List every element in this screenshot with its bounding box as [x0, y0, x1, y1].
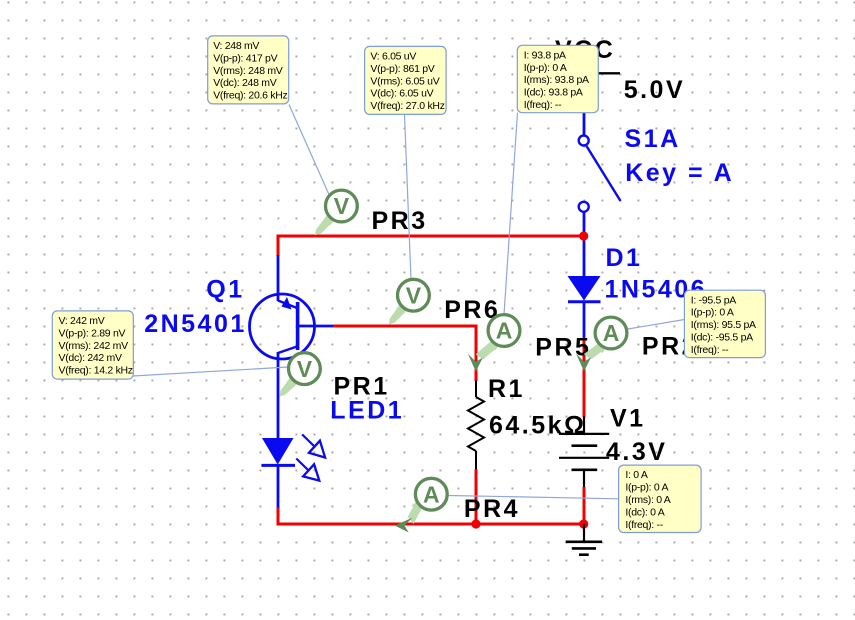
- svg-text:2N5401: 2N5401: [144, 310, 247, 338]
- label LED1: [330, 396, 404, 424]
- svg-text:Key = A: Key = A: [625, 159, 734, 187]
- svg-text:V(dc): 242 mV: V(dc): 242 mV: [59, 352, 123, 364]
- label PR3: [372, 207, 428, 235]
- svg-text:I(p-p): 0 A: I(p-p): 0 A: [625, 482, 668, 494]
- VCC power symbol bar: [548, 72, 620, 74]
- wire D1 to V1 (red): [583, 338, 586, 418]
- tooltip 3 (PR5 readings): [517, 45, 598, 112]
- svg-text:A: A: [423, 481, 440, 507]
- svg-text:A: A: [496, 318, 513, 344]
- label 2N5401: [144, 310, 247, 338]
- svg-text:I(p-p): 0 A: I(p-p): 0 A: [524, 62, 567, 74]
- connector line tooltip2 to PR6: [405, 115, 412, 280]
- svg-text:PR3: PR3: [372, 207, 428, 235]
- battery V1: [559, 417, 609, 489]
- svg-text:V(p-p): 861 pV: V(p-p): 861 pV: [370, 63, 434, 75]
- svg-text:I: 0 A: I: 0 A: [625, 469, 647, 481]
- svg-text:V: 242 mV: V: 242 mV: [59, 315, 105, 327]
- svg-text:I(dc): 93.8 pA: I(dc): 93.8 pA: [524, 87, 583, 99]
- svg-text:V(dc): 6.05 uV: V(dc): 6.05 uV: [370, 88, 433, 100]
- label V1: [610, 404, 646, 432]
- tooltip 6 (PR1 readings): [52, 311, 133, 379]
- probe PR2 (A): [576, 317, 627, 371]
- wire V1 to bottom net (red): [583, 487, 586, 524]
- connector line tooltip1 to PR3: [289, 105, 331, 199]
- svg-text:V(p-p): 2.89 nV: V(p-p): 2.89 nV: [59, 327, 126, 339]
- label PR2: [642, 333, 698, 361]
- label PR4: [464, 495, 520, 523]
- svg-text:I(freq): --: I(freq): --: [625, 519, 663, 531]
- diode D1: [568, 276, 601, 338]
- svg-text:R1: R1: [488, 375, 525, 403]
- svg-text:V(rms): 248 mV: V(rms): 248 mV: [213, 65, 283, 77]
- probe PR1 (V): [280, 353, 321, 397]
- wire R1 to bottom (red): [475, 469, 478, 524]
- svg-text:I(freq): --: I(freq): --: [691, 344, 729, 356]
- tooltip 4 (PR2 readings): [684, 290, 765, 357]
- probe PR3 (V): [315, 190, 357, 235]
- svg-text:D1: D1: [606, 244, 643, 272]
- svg-text:PR5: PR5: [535, 334, 591, 362]
- connector line tooltip4 to PR2: [628, 320, 684, 330]
- svg-text:V: V: [406, 282, 422, 308]
- ground: [566, 524, 602, 555]
- label R1: [488, 375, 525, 403]
- transistor Q1: [250, 255, 334, 438]
- tooltip 1 (PR3 readings): [208, 36, 289, 104]
- label 64.5kOhm: [489, 412, 587, 440]
- svg-text:A: A: [603, 320, 620, 346]
- connector line tooltip6 to PR1: [133, 367, 288, 376]
- label S1A: [625, 125, 681, 153]
- svg-text:V: 6.05 uV: V: 6.05 uV: [370, 51, 416, 63]
- svg-text:PR4: PR4: [464, 495, 520, 523]
- connector line tooltip5 to PR4: [449, 496, 619, 499]
- svg-text:V(rms): 6.05 uV: V(rms): 6.05 uV: [370, 75, 439, 87]
- label PR6: [444, 296, 500, 324]
- svg-text:I(rms): 93.8 pA: I(rms): 93.8 pA: [524, 74, 589, 86]
- svg-text:I: 93.8 pA: I: 93.8 pA: [524, 49, 566, 61]
- svg-text:V: V: [334, 193, 350, 219]
- svg-text:I(rms): 95.5 pA: I(rms): 95.5 pA: [691, 319, 756, 331]
- svg-text:V(dc): 248 mV: V(dc): 248 mV: [213, 77, 277, 89]
- switch S1: [579, 136, 621, 212]
- label D1: [606, 244, 643, 272]
- probe PR5 (A): [468, 315, 520, 372]
- junction dot PR4: [471, 519, 480, 528]
- svg-text:I(dc): -95.5 pA: I(dc): -95.5 pA: [691, 332, 753, 344]
- svg-text:I(rms): 0 A: I(rms): 0 A: [625, 494, 670, 506]
- svg-text:5.0V: 5.0V: [624, 76, 685, 104]
- junction dot bottom right: [579, 519, 588, 528]
- svg-text:V(freq): 27.0 kHz: V(freq): 27.0 kHz: [370, 100, 444, 112]
- resistor R1: [468, 381, 484, 470]
- label 5.0V: [624, 76, 685, 104]
- svg-text:Q1: Q1: [206, 276, 244, 304]
- wire VCC to switch: [583, 73, 586, 136]
- svg-text:I(p-p): 0 A: I(p-p): 0 A: [691, 307, 734, 319]
- svg-text:V(rms): 242 mV: V(rms): 242 mV: [59, 340, 129, 352]
- svg-text:LED1: LED1: [330, 396, 404, 424]
- label PR5: [535, 334, 591, 362]
- label PR1: [334, 373, 390, 401]
- tooltip 2 (PR6 readings): [365, 46, 447, 114]
- svg-text:64.5kΩ: 64.5kΩ: [489, 412, 587, 440]
- svg-text:V(freq): 14.2 kHz: V(freq): 14.2 kHz: [59, 365, 133, 377]
- svg-text:4.3V: 4.3V: [606, 438, 667, 466]
- wire bottom net (red): [278, 507, 584, 524]
- svg-text:I: -95.5 pA: I: -95.5 pA: [691, 294, 736, 306]
- tooltip 5 (PR4 readings): [619, 465, 702, 532]
- node VCC label: [555, 36, 615, 64]
- junction dot top: [579, 231, 588, 240]
- connector line tooltip3 to PR5: [504, 113, 518, 315]
- svg-text:V: 248 mV: V: 248 mV: [213, 40, 259, 52]
- wire top-left vertical (red): [277, 235, 280, 257]
- label 1N5406: [605, 276, 708, 304]
- svg-text:V(freq): 20.6 kHz: V(freq): 20.6 kHz: [213, 90, 287, 102]
- LED LED1: [261, 434, 325, 507]
- svg-text:V: V: [297, 356, 313, 382]
- wire switch to D1 (blue lead): [583, 212, 586, 278]
- label Q1: [206, 276, 244, 304]
- svg-text:S1A: S1A: [625, 125, 681, 153]
- svg-text:V(p-p): 417 pV: V(p-p): 417 pV: [213, 52, 277, 64]
- svg-text:I(freq): --: I(freq): --: [524, 99, 562, 111]
- svg-text:I(dc): 0 A: I(dc): 0 A: [625, 506, 664, 518]
- label Key = A: [625, 159, 734, 187]
- probe PR4 (A): [395, 478, 447, 532]
- probe PR6 (V): [389, 279, 429, 324]
- wire top net PR3 (red): [278, 235, 584, 238]
- svg-text:V1: V1: [610, 404, 646, 432]
- label 4.3V: [606, 438, 667, 466]
- wire base net PR6 (red): [333, 326, 476, 381]
